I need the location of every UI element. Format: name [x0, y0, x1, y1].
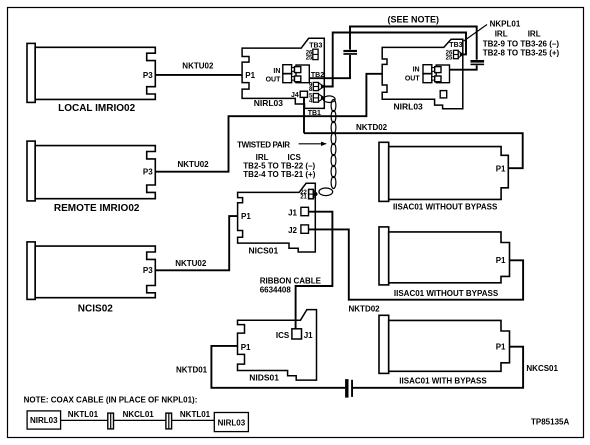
svg-text:P1: P1	[496, 343, 506, 352]
wire NKTD02 (NICS01 J2 to IISAC01 #2 P1)	[309, 229, 524, 299]
svg-text:IRL: IRL	[528, 30, 541, 39]
svg-text:REMOTE IMRIO02: REMOTE IMRIO02	[54, 203, 140, 214]
crimp connector at pins 5/4	[319, 94, 325, 101]
svg-text:IRL: IRL	[495, 30, 508, 39]
svg-text:6634408: 6634408	[260, 286, 292, 295]
svg-text:J1: J1	[288, 208, 297, 217]
svg-text:NIRL03: NIRL03	[394, 102, 424, 112]
svg-text:NKPL01: NKPL01	[490, 19, 521, 28]
svg-text:TB3: TB3	[309, 42, 322, 49]
module REMOTE IMRIO02	[27, 141, 155, 201]
svg-text:OUT: OUT	[266, 77, 282, 84]
svg-text:25: 25	[446, 55, 453, 61]
svg-text:25: 25	[306, 55, 313, 61]
svg-text:P1: P1	[241, 343, 251, 352]
svg-text:NKTU02: NKTU02	[175, 259, 207, 268]
crimp connector at pins 22/21	[313, 190, 317, 198]
module NIRL03 #2 outline	[382, 39, 463, 109]
module NICS01 outline	[238, 183, 316, 252]
svg-text:P3: P3	[143, 71, 153, 80]
svg-text:TB3: TB3	[449, 42, 462, 49]
wire NKPL01 (TB2-9/8 to TB3-26/25 of NIRL03 #2)	[325, 33, 467, 87]
svg-text:LOCAL IMRIO02: LOCAL IMRIO02	[58, 103, 135, 114]
pin J4 square (NIRL03 #2, unlabeled)	[440, 91, 447, 98]
svg-text:ICS: ICS	[276, 331, 290, 340]
svg-text:P1: P1	[241, 212, 251, 221]
wire NKTD02 (J4 to IISAC01 #1 P1)	[304, 133, 523, 168]
wire J4 down from NIRL03 #1	[303, 97, 305, 133]
svg-text:TB2-8 TO TB3-25 (+): TB2-8 TO TB3-25 (+)	[483, 48, 560, 57]
svg-text:P3: P3	[143, 266, 153, 275]
wire NKTU02 (REMOTE P3 to NIRL03#2 P1)	[155, 74, 382, 172]
svg-text:IISAC01 WITHOUT BYPASS: IISAC01 WITHOUT BYPASS	[393, 203, 498, 212]
svg-text:P1: P1	[245, 71, 255, 80]
wire ribbon cable J1 (NICS01 J1 to NIDS01 ICS J1)	[296, 212, 333, 329]
coax connector (right barrel)	[166, 413, 172, 429]
module NCIS02	[27, 242, 155, 300]
note NIRL03 box (right)	[214, 413, 248, 432]
crimp connector at pins 26/25	[458, 51, 462, 58]
note chain wire	[61, 419, 215, 421]
svg-text:NKTD01: NKTD01	[176, 365, 208, 374]
svg-text:NKTD02: NKTD02	[349, 304, 381, 313]
module IISAC01 WITHOUT BYPASS #2	[379, 227, 510, 285]
wire NKCS01 (bottom run to IISAC01 WITH BYPASS P1)	[353, 347, 523, 388]
svg-text:P3: P3	[143, 168, 153, 177]
svg-text:OUT: OUT	[405, 76, 421, 83]
svg-text:IISAC01 WITH BYPASS: IISAC01 WITH BYPASS	[399, 377, 487, 386]
twisted pair chain (TB1-5/4 to NICS01 22/21)	[319, 96, 336, 196]
svg-text:NKTL01: NKTL01	[68, 410, 99, 419]
note NIRL03 box (left)	[27, 411, 61, 429]
svg-text:NIDS01: NIDS01	[249, 372, 279, 382]
svg-text:NKTU02: NKTU02	[182, 62, 214, 71]
coax inline connector (bottom run)	[345, 379, 353, 398]
svg-text:P1: P1	[496, 256, 506, 265]
svg-text:NIRL03: NIRL03	[218, 418, 246, 427]
svg-text:J2: J2	[288, 226, 297, 235]
svg-text:NKTU02: NKTU02	[178, 160, 210, 169]
svg-text:NKTL01: NKTL01	[180, 410, 211, 419]
crimp connector at pins 9/8	[319, 83, 325, 90]
svg-text:NIRL03: NIRL03	[30, 416, 58, 425]
wire NKTU02 (NCIS02 P3 to NICS01 P1)	[155, 216, 237, 270]
svg-text:J4: J4	[291, 92, 299, 99]
svg-text:IN: IN	[413, 67, 420, 74]
svg-text:P1: P1	[496, 165, 506, 174]
svg-text:NIRL03: NIRL03	[254, 98, 284, 108]
svg-text:TB1: TB1	[308, 110, 321, 117]
svg-text:TP85135A: TP85135A	[531, 418, 569, 427]
module IISAC01 WITHOUT BYPASS #1	[379, 142, 508, 201]
svg-text:NKTD02: NKTD02	[356, 123, 388, 132]
svg-text:TB2-9 TO TB3-26 (–): TB2-9 TO TB3-26 (–)	[483, 39, 560, 48]
svg-text:NKCS01: NKCS01	[526, 364, 558, 373]
module LOCAL IMRIO02	[27, 43, 155, 102]
svg-text:TB2-4 TO TB-21 (+): TB2-4 TO TB-21 (+)	[243, 170, 315, 179]
svg-text:NICS01: NICS01	[249, 246, 279, 256]
coax connector NKTL01 (left barrel)	[108, 413, 114, 429]
svg-text:RIBBON CABLE: RIBBON CABLE	[260, 276, 322, 285]
svg-text:J1: J1	[304, 331, 313, 340]
wire TB2/OUT coax trunk: OUT to riser, top run, down to NIRL03#2 IN	[309, 27, 476, 79]
wire NKTU02 (LOCAL P3 to NIRL03 P1)	[155, 74, 242, 76]
svg-text:NOTE: COAX CABLE (IN PLACE OF: NOTE: COAX CABLE (IN PLACE OF NKPL01):	[24, 395, 198, 404]
svg-text:21: 21	[300, 195, 307, 201]
svg-text:NKCL01: NKCL01	[123, 410, 155, 419]
module NIDS01 outline	[238, 310, 317, 381]
wire NKTD01 (NIDS01 P1 to bottom run)	[211, 346, 345, 388]
svg-text:TWISTED PAIR: TWISTED PAIR	[237, 140, 290, 149]
coax terminator (right, on riser x=476.7)	[471, 60, 485, 66]
svg-text:IN: IN	[273, 68, 280, 75]
svg-text:NCIS02: NCIS02	[78, 303, 113, 314]
coax terminator (left, on riser x=350)	[343, 50, 357, 55]
module NIRL03 #1 outline	[242, 38, 324, 108]
svg-text:IISAC01 WITHOUT BYPASS: IISAC01 WITHOUT BYPASS	[394, 289, 499, 298]
module IISAC01 WITH BYPASS	[379, 315, 510, 373]
svg-text:(SEE NOTE): (SEE NOTE)	[388, 14, 440, 24]
